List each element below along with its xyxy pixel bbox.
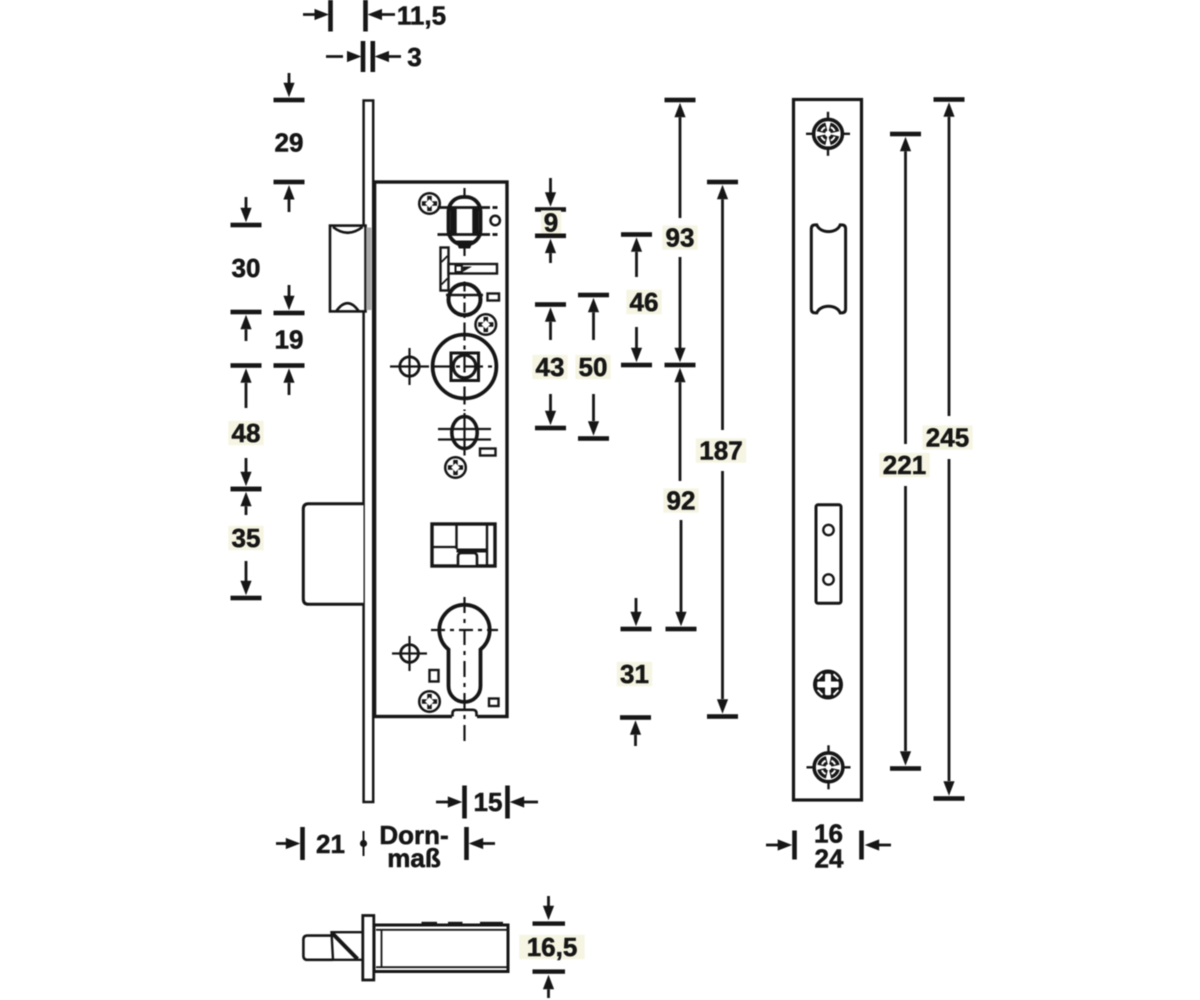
dim 29 (288, 73, 291, 83)
centerline vertical top (463, 188, 465, 196)
phillips screw A (top left in case) (419, 193, 440, 214)
phillips screw C (445, 457, 466, 478)
oval hole below follower (452, 417, 477, 449)
deadbolt guide block (432, 524, 495, 566)
svg-text:24: 24 (815, 844, 844, 874)
svg-text:11,5: 11,5 (397, 1, 446, 31)
dim 16,5 (547, 896, 550, 906)
small square right of hub (488, 294, 500, 301)
dim 48 (231, 363, 262, 368)
svg-text:19: 19 (275, 325, 304, 355)
latch opening in faceplate (811, 225, 845, 313)
bottom notch in lock case (452, 713, 477, 721)
dim 11,5 (303, 13, 320, 16)
T-shaped lever (Wechsel) (441, 248, 449, 291)
dim 43 (535, 302, 566, 307)
svg-text:31: 31 (620, 659, 649, 689)
dim 93 (665, 98, 696, 103)
phillips screw B (476, 314, 497, 335)
left mounting hole (bottom) (401, 645, 419, 663)
svg-text:46: 46 (630, 287, 659, 317)
faceplate side view (Stulp) (364, 101, 374, 803)
dim 21 and Dornmass label (276, 842, 286, 845)
small rect right of oval (480, 449, 496, 456)
dim 187 (707, 180, 738, 185)
dim 9 (549, 178, 552, 193)
faceplate front view (Stulp) (794, 100, 862, 801)
latch bevel (332, 932, 365, 960)
svg-text:21: 21 (316, 829, 345, 859)
security screw (4-lobe) (813, 670, 843, 700)
svg-text:16,5: 16,5 (527, 932, 578, 962)
dim 3 (326, 55, 343, 58)
dim 30 (245, 197, 248, 208)
small square right of cylinder (489, 699, 499, 707)
svg-text:3: 3 (407, 42, 421, 72)
svg-text:92: 92 (667, 486, 696, 516)
dim 19 (288, 285, 291, 296)
euro profile cylinder hole (439, 605, 489, 702)
faceplate screw top (806, 133, 850, 135)
dim 35 (231, 487, 262, 492)
faceplate cross-section (363, 916, 374, 981)
deadbolt front view (303, 504, 363, 605)
dim 245 (934, 97, 965, 102)
deadbolt slot plate (816, 505, 841, 604)
phillips screw D (419, 691, 440, 712)
dim 221 (890, 132, 921, 137)
dim 92 (674, 368, 685, 383)
lock case outline (375, 182, 507, 717)
latch tip cross-section (303, 936, 333, 960)
svg-text:9: 9 (544, 208, 558, 238)
latch cross-section body (374, 925, 508, 972)
small hole right of latch (491, 216, 500, 225)
dim 50 (578, 293, 609, 298)
hub ellipse below lever (449, 284, 481, 315)
latch follower stadium (449, 197, 481, 245)
svg-text:30: 30 (232, 253, 261, 283)
svg-text:93: 93 (666, 223, 695, 253)
dim 16 over 24 (766, 844, 779, 847)
svg-text:50: 50 (579, 352, 608, 382)
tabs on top of body (422, 922, 438, 926)
square follower hub (433, 335, 497, 399)
svg-text:187: 187 (699, 436, 742, 466)
dim 15 (436, 801, 448, 804)
svg-text:35: 35 (232, 523, 261, 553)
dim 31 (635, 598, 638, 612)
svg-text:15: 15 (474, 787, 503, 817)
dim 46 (621, 232, 652, 237)
latch bolt front view (330, 226, 366, 312)
svg-text:245: 245 (926, 423, 969, 453)
svg-text:maß: maß (387, 843, 441, 873)
svg-text:29: 29 (275, 128, 304, 158)
svg-text:48: 48 (232, 418, 261, 448)
left mounting hole (top) (400, 357, 419, 376)
svg-text:221: 221 (883, 450, 926, 480)
svg-text:43: 43 (536, 352, 565, 382)
faceplate screw bottom (807, 766, 851, 768)
small rect left of cylinder (430, 670, 439, 682)
